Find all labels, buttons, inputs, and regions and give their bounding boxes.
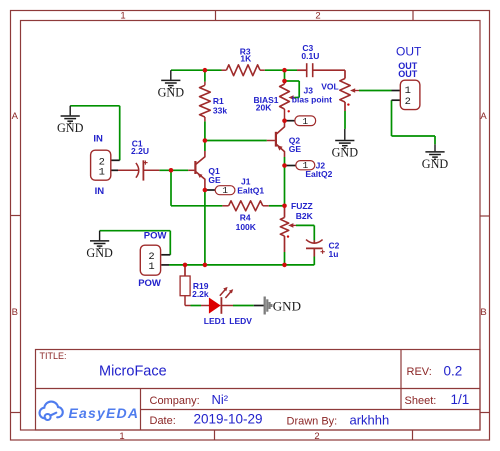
svg-text:R4: R4 — [240, 212, 251, 222]
svg-text:1: 1 — [119, 431, 124, 442]
svg-text:1: 1 — [222, 185, 228, 196]
svg-text:1: 1 — [120, 11, 125, 22]
svg-text:Company:: Company: — [150, 395, 200, 407]
svg-text:2019-10-29: 2019-10-29 — [194, 412, 263, 427]
svg-text:1: 1 — [302, 116, 308, 127]
svg-text:GE: GE — [208, 175, 221, 185]
svg-text:33k: 33k — [213, 106, 227, 116]
svg-text:GND: GND — [57, 121, 84, 135]
svg-text:100K: 100K — [236, 222, 257, 232]
svg-text:EaltQ2: EaltQ2 — [305, 169, 332, 179]
svg-text:OUT: OUT — [396, 45, 422, 59]
svg-text:0.2: 0.2 — [444, 364, 463, 379]
svg-text:Date:: Date: — [150, 415, 176, 427]
svg-text:A: A — [12, 111, 19, 122]
svg-text:GND: GND — [86, 246, 113, 260]
svg-text:B: B — [480, 307, 486, 318]
svg-text:OUT: OUT — [398, 69, 418, 79]
svg-text:EaltQ1: EaltQ1 — [237, 186, 264, 196]
svg-text:A: A — [480, 111, 487, 122]
svg-text:Sheet:: Sheet: — [405, 395, 437, 407]
svg-text:GND: GND — [273, 299, 301, 314]
svg-text:VOL: VOL — [321, 81, 338, 91]
svg-text:Ni²: Ni² — [212, 392, 229, 407]
svg-text:20K: 20K — [256, 103, 272, 113]
svg-text:LED1: LED1 — [204, 316, 226, 326]
svg-text:IN: IN — [95, 186, 105, 197]
svg-text:arkhhh: arkhhh — [350, 413, 390, 428]
svg-text:POW: POW — [138, 278, 161, 289]
svg-text:MicroFace: MicroFace — [99, 364, 167, 380]
svg-text:GND: GND — [158, 86, 185, 100]
svg-text:1: 1 — [148, 261, 154, 273]
svg-text:LEDV: LEDV — [229, 316, 252, 326]
svg-text:EasyEDA: EasyEDA — [69, 405, 140, 421]
svg-text:R1: R1 — [213, 96, 224, 106]
svg-text:1: 1 — [99, 167, 105, 179]
svg-text:POW: POW — [144, 231, 167, 242]
svg-text:GND: GND — [332, 146, 359, 160]
svg-text:0.1U: 0.1U — [301, 51, 319, 61]
svg-text:2: 2 — [315, 11, 320, 22]
svg-text:2.2k: 2.2k — [192, 289, 209, 299]
svg-text:GND: GND — [422, 157, 449, 171]
svg-text:B: B — [12, 307, 18, 318]
svg-text:TITLE:: TITLE: — [40, 351, 67, 361]
svg-text:B2K: B2K — [296, 211, 314, 221]
svg-text:2: 2 — [405, 96, 411, 108]
svg-text:1K: 1K — [240, 53, 252, 63]
svg-text:Drawn By:: Drawn By: — [287, 416, 338, 428]
svg-text:IN: IN — [93, 134, 103, 145]
svg-text:REV:: REV: — [407, 366, 432, 378]
svg-text:FUZZ: FUZZ — [291, 201, 313, 211]
svg-text:1/1: 1/1 — [451, 392, 470, 407]
svg-text:bias point: bias point — [292, 95, 332, 105]
svg-text:1u: 1u — [329, 249, 339, 259]
svg-text:GE: GE — [289, 144, 302, 154]
svg-text:2: 2 — [314, 431, 319, 442]
svg-text:2.2U: 2.2U — [131, 146, 149, 156]
